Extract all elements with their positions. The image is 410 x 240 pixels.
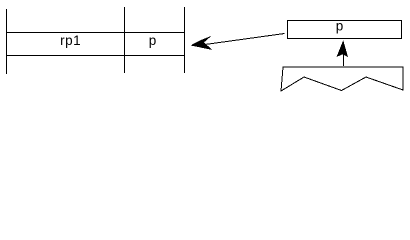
svg-text:rp1: rp1: [60, 33, 81, 48]
svg-text:p: p: [149, 33, 157, 48]
svg-text:p: p: [336, 18, 344, 33]
